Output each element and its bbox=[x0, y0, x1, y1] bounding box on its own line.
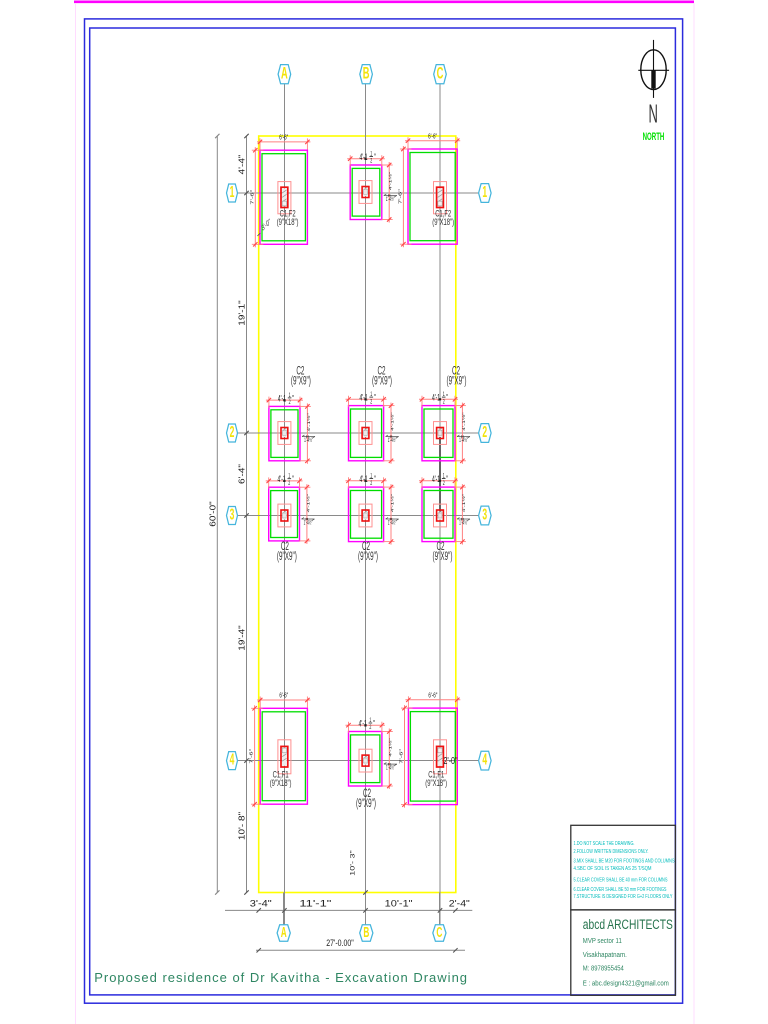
svg-text:(9"X9"): (9"X9") bbox=[277, 550, 297, 562]
svg-text:1.DO NOT SCALE THE DRAWING.: 1.DO NOT SCALE THE DRAWING. bbox=[574, 841, 635, 847]
svg-text:19'-1": 19'-1" bbox=[237, 300, 246, 325]
svg-text:2: 2 bbox=[370, 158, 372, 165]
svg-text:3.MIX SHALL BE M20 FOR FOOTING: 3.MIX SHALL BE M20 FOR FOOTINGS AND COLU… bbox=[574, 858, 675, 864]
svg-text:11'-1": 11'-1" bbox=[299, 899, 331, 909]
svg-text:B: B bbox=[363, 64, 370, 83]
svg-text:(9"X9"): (9"X9") bbox=[358, 550, 378, 562]
svg-text:1: 1 bbox=[230, 183, 235, 200]
svg-text:abcd ARCHITECTS: abcd ARCHITECTS bbox=[583, 917, 673, 932]
svg-text:4'-1: 4'-1 bbox=[278, 473, 286, 484]
svg-text:2: 2 bbox=[482, 423, 487, 440]
svg-text:NORTH: NORTH bbox=[643, 130, 665, 142]
svg-text:Visakhapatnam.: Visakhapatnam. bbox=[583, 950, 627, 959]
svg-text:N: N bbox=[649, 100, 658, 129]
svg-text:2.FOLLOW WRITTEN DIMENSIONS ON: 2.FOLLOW WRITTEN DIMENSIONS ONLY. bbox=[574, 849, 649, 855]
svg-text:2: 2 bbox=[288, 480, 290, 487]
svg-text:6'-6": 6'-6" bbox=[279, 133, 288, 141]
svg-text:4'-1½": 4'-1½" bbox=[388, 172, 393, 191]
svg-text:7'-6": 7'-6" bbox=[250, 190, 255, 205]
svg-text:3: 3 bbox=[230, 506, 235, 523]
svg-text:(9"X18"): (9"X18") bbox=[270, 778, 292, 789]
svg-text:2: 2 bbox=[369, 724, 371, 731]
svg-text:4: 4 bbox=[230, 751, 235, 768]
svg-text:2: 2 bbox=[370, 398, 372, 405]
svg-text:2: 2 bbox=[370, 480, 372, 487]
svg-text:(9"X9"): (9"X9") bbox=[372, 375, 392, 387]
svg-text:7.STRUCTURE IS DESIGNED FOR G+: 7.STRUCTURE IS DESIGNED FOR G+2 FLOORS O… bbox=[574, 894, 673, 900]
svg-text:6.CLEAR COVER SHALL BE 50 mm F: 6.CLEAR COVER SHALL BE 50 mm FOR FOOTING… bbox=[574, 887, 667, 893]
svg-text:4'-1: 4'-1 bbox=[359, 718, 367, 729]
svg-text:4'-1: 4'-1 bbox=[432, 392, 440, 403]
svg-text:27'-0.00": 27'-0.00" bbox=[326, 938, 354, 949]
svg-text:": " bbox=[374, 392, 376, 403]
svg-text:1: 1 bbox=[482, 183, 487, 200]
svg-text:4.SBC OF SOIL IS TAKEN AS 25 T: 4.SBC OF SOIL IS TAKEN AS 25 T/SQM bbox=[574, 866, 652, 872]
svg-text:60'-0": 60'-0" bbox=[208, 501, 217, 526]
svg-text:2'-4": 2'-4" bbox=[449, 899, 470, 909]
svg-text:": " bbox=[446, 473, 448, 484]
svg-text:4'-1½": 4'-1½" bbox=[461, 412, 466, 431]
svg-text:2'-0": 2'-0" bbox=[444, 755, 458, 767]
svg-text:Proposed residence of Dr Kavit: Proposed residence of Dr Kavitha - Excav… bbox=[94, 970, 468, 985]
svg-text:": " bbox=[374, 151, 376, 162]
svg-text:2: 2 bbox=[289, 399, 291, 406]
svg-text:3: 3 bbox=[482, 506, 487, 523]
svg-text:7'-6": 7'-6" bbox=[249, 749, 254, 764]
svg-text:5.CLEAR COVER SHALL BE 40 mm F: 5.CLEAR COVER SHALL BE 40 mm FOR COLUMNS bbox=[574, 877, 668, 883]
svg-text:M: 8978955454: M: 8978955454 bbox=[583, 964, 624, 973]
svg-text:": " bbox=[446, 392, 448, 403]
svg-text:(9"X9"): (9"X9") bbox=[291, 375, 311, 387]
svg-text:(9"X9"): (9"X9") bbox=[433, 550, 453, 562]
svg-text:19'-4": 19'-4" bbox=[237, 625, 246, 650]
svg-text:B: B bbox=[363, 923, 369, 940]
svg-text:6'-4": 6'-4" bbox=[237, 464, 246, 484]
svg-text:2: 2 bbox=[230, 423, 235, 440]
svg-text:A: A bbox=[281, 923, 287, 940]
svg-text:MVP sector 11: MVP sector 11 bbox=[583, 936, 622, 945]
svg-text:E : abc.design4321@gmail.com: E : abc.design4321@gmail.com bbox=[583, 979, 669, 988]
svg-text:6'-6": 6'-6" bbox=[428, 691, 437, 699]
svg-text:(9"X9"): (9"X9") bbox=[356, 797, 376, 809]
svg-text:3'-4": 3'-4" bbox=[250, 899, 272, 909]
svg-text:2: 2 bbox=[443, 398, 445, 405]
svg-text:": " bbox=[292, 393, 294, 404]
svg-text:": " bbox=[292, 473, 294, 484]
svg-text:4'-1½": 4'-1½" bbox=[461, 494, 466, 513]
svg-text:4'-1½": 4'-1½" bbox=[306, 413, 311, 432]
svg-text:10'- 8": 10'- 8" bbox=[237, 812, 246, 840]
svg-text:(9"X18"): (9"X18") bbox=[432, 217, 454, 228]
svg-text:4'-1: 4'-1 bbox=[359, 151, 367, 162]
svg-text:4'-1: 4'-1 bbox=[360, 392, 368, 403]
svg-text:C: C bbox=[436, 923, 442, 940]
svg-text:": " bbox=[373, 718, 375, 729]
svg-text:A: A bbox=[281, 64, 288, 83]
svg-text:4'-1½": 4'-1½" bbox=[390, 494, 395, 513]
svg-text:(9"X9"): (9"X9") bbox=[447, 375, 467, 387]
svg-text:7'-6": 7'-6" bbox=[399, 749, 404, 764]
svg-text:10'- 3": 10'- 3" bbox=[349, 850, 357, 876]
svg-text:4: 4 bbox=[482, 751, 487, 768]
svg-text:2: 2 bbox=[443, 480, 445, 487]
svg-text:4'-1: 4'-1 bbox=[360, 473, 368, 484]
svg-text:4'-1½": 4'-1½" bbox=[306, 494, 311, 513]
svg-text:4'-1: 4'-1 bbox=[278, 393, 286, 404]
svg-text:6'-6": 6'-6" bbox=[279, 692, 288, 700]
svg-text:7'-6": 7'-6" bbox=[398, 189, 403, 204]
svg-text:6'-6": 6'-6" bbox=[428, 132, 437, 140]
svg-text:4'-1½": 4'-1½" bbox=[390, 412, 395, 431]
svg-text:10'-1": 10'-1" bbox=[385, 899, 413, 909]
svg-text:C: C bbox=[437, 64, 444, 83]
svg-text:4'-4": 4'-4" bbox=[237, 155, 246, 175]
svg-text:(9"X18"): (9"X18") bbox=[425, 778, 447, 789]
svg-text:(9"X18"): (9"X18") bbox=[277, 217, 299, 228]
svg-text:4'-1: 4'-1 bbox=[432, 473, 440, 484]
svg-text:": " bbox=[374, 473, 376, 484]
svg-text:4'-1½": 4'-1½" bbox=[388, 738, 393, 757]
